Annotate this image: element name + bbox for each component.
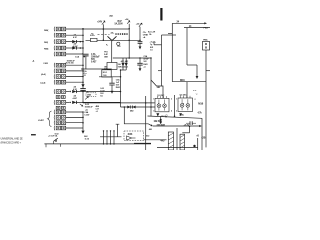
junction	[80, 47, 82, 49]
junction	[139, 57, 141, 59]
wire	[121, 69, 127, 71]
junction	[106, 143, 108, 145]
junction	[83, 56, 85, 58]
junction	[139, 40, 141, 42]
svg-text:(RANCISCO ARE +: (RANCISCO ARE +	[1, 142, 22, 145]
svg-text:+5.2V: +5.2V	[184, 125, 190, 127]
connector row y=122.7	[54, 120, 66, 125]
wire	[168, 32, 172, 34]
svg-text:445: 445	[149, 128, 153, 131]
dash mark	[31, 134, 36, 135]
junction	[80, 41, 82, 43]
wire diag to box1	[151, 80, 163, 98]
wire	[66, 28, 130, 30]
comb bus	[100, 124, 122, 144]
wire	[174, 95, 176, 117]
IC box	[178, 96, 193, 112]
svg-text:0.437: 0.437	[91, 60, 97, 63]
junction	[189, 126, 191, 128]
capacitor mid	[109, 77, 114, 91]
svg-text:0.02: 0.02	[85, 104, 90, 106]
arrow below Q1	[156, 113, 159, 116]
capacitor C5A	[137, 58, 142, 68]
svg-text:+24: +24	[125, 18, 129, 21]
svg-text:C433: C433	[43, 62, 49, 65]
wire	[134, 142, 151, 144]
svg-text:B47: B47	[118, 20, 123, 23]
IC box	[155, 96, 169, 112]
wire	[158, 70, 162, 72]
fuse F1	[91, 38, 98, 41]
resistor box NO.1	[99, 70, 121, 77]
wire	[120, 70, 122, 107]
svg-text:2: 2	[195, 99, 196, 101]
svg-text:B32: B32	[146, 135, 151, 137]
dark marks	[115, 33, 128, 35]
arrow into bus	[80, 104, 84, 107]
junction	[145, 102, 147, 104]
svg-text:2: 2	[171, 99, 172, 101]
svg-text:4.7k: 4.7k	[198, 111, 203, 114]
wire	[66, 76, 83, 78]
svg-text:5A,250V: 5A,250V	[115, 23, 124, 26]
wire	[154, 44, 162, 46]
wire	[196, 65, 198, 76]
svg-text:PB4: PB4	[204, 27, 209, 30]
svg-text:10000uF: 10000uF	[85, 107, 94, 109]
svg-text:+5: +5	[143, 66, 146, 68]
arrow down	[139, 46, 142, 49]
junction	[82, 47, 84, 49]
svg-text:445: 445	[160, 139, 165, 143]
svg-text:·+·: ·+·	[196, 93, 199, 95]
dashed link	[98, 34, 110, 36]
capacitor C1 10000uF	[81, 54, 112, 69]
wire	[66, 34, 83, 36]
junction	[120, 69, 122, 71]
wire	[161, 35, 163, 86]
junction	[82, 34, 84, 36]
junction	[150, 57, 152, 59]
wire	[184, 27, 210, 29]
connector row y=35.2	[54, 33, 66, 38]
svg-text:3: 3	[176, 111, 177, 113]
svg-text:F4B(: F4B(	[44, 47, 49, 50]
resistor box A	[107, 63, 117, 70]
junction	[120, 76, 122, 78]
transistor TR1	[112, 41, 120, 63]
thick bar mark	[160, 8, 162, 21]
connector row y=102.4	[54, 100, 66, 105]
svg-text:F+: F+	[106, 45, 109, 47]
cap small right	[186, 121, 196, 125]
connector PBA	[203, 41, 210, 50]
+5.2V line	[153, 125, 202, 127]
svg-text:4B2: 4B2	[130, 110, 134, 113]
wire	[162, 34, 177, 36]
arrow down	[81, 131, 84, 134]
wire	[113, 57, 151, 59]
svg-text:4.4F: 4.4F	[125, 60, 129, 63]
junction	[103, 40, 105, 42]
wire	[66, 81, 83, 83]
svg-text:Q1 2SC: Q1 2SC	[157, 95, 165, 97]
svg-text:1: 1	[176, 99, 177, 101]
svg-text:1: 1	[153, 99, 154, 101]
junction	[120, 91, 122, 93]
svg-text:NO.1: NO.1	[103, 72, 108, 74]
svg-text:Q2 2SC: Q2 2SC	[180, 94, 188, 96]
svg-text:4046: 4046	[128, 133, 134, 136]
junction	[128, 40, 130, 42]
svg-text:4N25: 4N25	[87, 94, 91, 97]
junction	[82, 68, 84, 70]
diode D3	[66, 90, 121, 93]
svg-text:10k 500: 10k 500	[154, 120, 163, 123]
stub with blob	[159, 116, 162, 124]
wire down to y123.8	[124, 107, 153, 126]
wire	[187, 64, 197, 66]
wire 24 out	[172, 22, 207, 24]
svg-text:L1457: L1457	[38, 119, 45, 122]
junction	[82, 64, 84, 66]
connector row y=128	[54, 126, 66, 131]
+24V node 2	[127, 20, 130, 58]
svg-text:0.47u: 0.47u	[90, 34, 95, 37]
connector row y=54	[54, 52, 66, 57]
junction	[82, 76, 84, 78]
opamp 4046 dashed box	[124, 131, 144, 141]
wire	[66, 122, 83, 124]
connector row y=91.5	[54, 89, 66, 94]
wire	[66, 111, 83, 113]
arrow down	[139, 68, 142, 71]
svg-text:4: 4	[171, 110, 172, 113]
svg-text:1.5: 1.5	[150, 49, 153, 51]
svg-text:C5A: C5A	[143, 55, 147, 58]
svg-text:4.1F: 4.1F	[73, 88, 78, 91]
svg-text:C.047: C.047	[84, 113, 90, 116]
svg-text:+·+·: +·+·	[193, 90, 197, 92]
diode D2	[66, 46, 83, 49]
wire	[102, 29, 104, 40]
wire	[144, 139, 167, 141]
wire	[150, 58, 152, 116]
junction	[113, 143, 115, 145]
wire	[153, 42, 155, 45]
diode DA	[121, 58, 124, 70]
wire	[86, 39, 141, 41]
wire	[189, 126, 191, 133]
svg-text:+2: +2	[96, 111, 99, 113]
svg-text:+1 OUT 1A: +1 OUT 1A	[48, 135, 58, 138]
svg-text:4.007: 4.007	[73, 45, 78, 48]
svg-text:+T+(7)+: +T+(7)+	[150, 41, 157, 43]
svg-text:F48(: F48(	[44, 41, 48, 44]
wire	[66, 64, 83, 66]
junction	[82, 28, 84, 30]
junction	[82, 111, 84, 113]
junction	[82, 28, 84, 30]
arrow below Q2	[179, 113, 182, 116]
svg-text:L4+4(: L4+4(	[40, 82, 45, 85]
connector row y=107.8	[56, 106, 65, 109]
junction	[110, 143, 112, 145]
svg-text:3: 3	[153, 111, 154, 113]
hatched box R2	[180, 134, 185, 150]
wire	[82, 112, 84, 131]
diode DB	[125, 58, 128, 70]
svg-text:2A+: 2A+	[111, 32, 115, 35]
brace group4	[48, 111, 52, 127]
connector row y=48	[54, 46, 66, 51]
svg-text:A: A	[33, 60, 35, 63]
wire	[66, 116, 83, 118]
connector row y=97	[56, 96, 65, 99]
svg-text:1.5A: 1.5A	[75, 55, 80, 58]
wire	[171, 23, 173, 81]
wire	[157, 146, 198, 148]
wire	[182, 132, 189, 134]
junction	[82, 70, 84, 72]
svg-text:75R: 75R	[118, 67, 122, 69]
connector row y=112	[54, 110, 66, 115]
junction	[103, 28, 105, 30]
svg-text:PBA: PBA	[203, 39, 208, 42]
svg-text:1BK: 1BK	[104, 56, 108, 58]
connector row y=29	[54, 27, 66, 32]
connector row y=41.6	[54, 39, 66, 44]
junction	[82, 117, 84, 119]
connector row y=82.2	[54, 80, 66, 85]
capacitor C2 10000uF	[80, 87, 154, 103]
connector row y=76.5	[54, 74, 66, 79]
junction	[124, 106, 126, 108]
svg-text:(E)1: (E)1	[110, 15, 114, 17]
wire	[66, 53, 84, 55]
svg-text:M16: M16	[180, 79, 185, 82]
svg-text:470uF: 470uF	[143, 58, 149, 61]
arrow down	[81, 84, 84, 87]
wire	[205, 50, 207, 147]
wire	[66, 70, 83, 72]
wire	[66, 127, 83, 129]
switch S02	[46, 138, 60, 147]
junction	[82, 122, 84, 124]
arrow down	[196, 76, 199, 79]
arrow down	[111, 91, 114, 94]
junction	[174, 115, 176, 117]
wire	[176, 128, 178, 150]
svg-text:220.64B: 220.64B	[157, 124, 166, 127]
wire	[82, 29, 84, 87]
+24V node 1	[102, 21, 106, 30]
svg-text:1R1: 1R1	[117, 46, 120, 48]
junction	[82, 102, 84, 104]
junction	[82, 41, 84, 43]
junction	[128, 28, 130, 30]
svg-text:+2B: +2B	[201, 138, 205, 140]
+24V node 3	[139, 23, 143, 42]
wire	[44, 143, 151, 145]
svg-text:+▪+: +▪+	[165, 114, 169, 116]
junction	[82, 81, 84, 83]
wire	[186, 28, 188, 65]
diode D4	[66, 101, 121, 104]
capacitor C5	[138, 42, 143, 47]
wire	[186, 82, 188, 98]
junction	[128, 57, 130, 59]
svg-text:F4B(: F4B(	[44, 29, 49, 32]
svg-text:+ +B): + +B)	[179, 114, 184, 116]
connector row y=70.9	[54, 69, 66, 74]
svg-text:25.70.105: 25.70.105	[66, 63, 75, 65]
junction	[165, 116, 167, 118]
wire	[145, 96, 147, 150]
wire	[206, 70, 210, 72]
svg-text:+8: +8	[196, 136, 199, 138]
wire y107 with diodes	[121, 106, 156, 109]
blob	[193, 145, 195, 147]
svg-text:M16: M16	[198, 102, 203, 106]
junction	[103, 143, 105, 145]
zener dashed box	[85, 91, 96, 99]
connector row y=65.2	[54, 63, 66, 68]
junction	[82, 91, 84, 93]
svg-text:4.1F: 4.1F	[73, 36, 78, 39]
svg-text:(4+4(: (4+4(	[41, 73, 46, 76]
svg-text:4.007: 4.007	[73, 97, 78, 100]
junction	[150, 106, 152, 108]
wire	[172, 81, 206, 83]
svg-text:R&R: R&R	[116, 87, 121, 89]
diode D1	[66, 40, 83, 43]
svg-text:UNIVERSAL AND 2E: UNIVERSAL AND 2E	[1, 138, 23, 141]
svg-text:1.R: 1.R	[83, 75, 86, 77]
wire	[197, 138, 199, 150]
wire	[201, 118, 203, 150]
connector row y=117.4	[54, 115, 66, 120]
svg-text:+24V: +24V	[97, 20, 103, 23]
wire	[148, 116, 203, 118]
svg-text:+24: +24	[136, 22, 140, 25]
hatched box R1	[168, 132, 173, 150]
svg-text:11.16: 11.16	[85, 138, 90, 140]
bridge V shape	[108, 36, 117, 40]
